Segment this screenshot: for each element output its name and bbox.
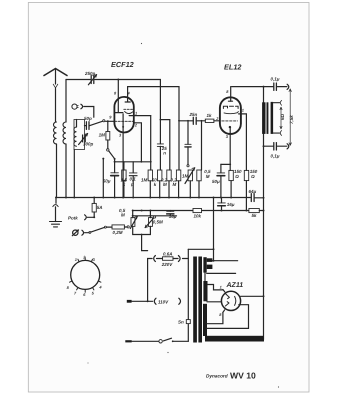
svg-text:0,1μ: 0,1μ	[271, 77, 280, 82]
svg-text:5k: 5k	[252, 213, 258, 218]
svg-text:M: M	[206, 174, 210, 179]
svg-text:M: M	[173, 182, 177, 187]
svg-text:Ω: Ω	[250, 174, 255, 179]
svg-text:μ: μ	[130, 182, 134, 187]
svg-text:50p: 50p	[84, 116, 92, 121]
svg-text:0,2M: 0,2M	[113, 230, 123, 235]
svg-text:25n: 25n	[189, 112, 198, 117]
svg-text:AZ11: AZ11	[226, 282, 244, 289]
svg-text:7,5k: 7,5k	[289, 115, 294, 124]
svg-text:1M: 1M	[182, 174, 189, 179]
svg-text:250p: 250p	[84, 71, 96, 76]
svg-text:Sn: Sn	[178, 319, 184, 324]
svg-text:0,5M: 0,5M	[153, 220, 163, 225]
svg-text:1: 1	[135, 111, 137, 116]
svg-text:6Ω: 6Ω	[280, 113, 285, 120]
svg-text:1k: 1k	[207, 113, 213, 118]
svg-text:M: M	[121, 213, 125, 218]
svg-text:300p: 300p	[83, 142, 94, 147]
svg-text:110V: 110V	[158, 300, 169, 305]
svg-text:1M: 1M	[99, 132, 106, 137]
svg-text:ECF12: ECF12	[111, 60, 134, 69]
svg-text:Potk: Potk	[68, 216, 78, 221]
svg-text:EL12: EL12	[224, 63, 241, 72]
svg-text:1: 1	[220, 285, 222, 290]
svg-text:50μ: 50μ	[103, 178, 111, 183]
svg-text:50μ: 50μ	[212, 179, 220, 184]
svg-text:5A: 5A	[97, 205, 103, 210]
svg-text:WV 10: WV 10	[230, 371, 256, 381]
svg-text:1M: 1M	[141, 177, 148, 182]
svg-text:1: 1	[242, 108, 244, 113]
svg-text:Ω: Ω	[234, 174, 239, 179]
svg-text:1: 1	[75, 257, 77, 262]
svg-text:16μ: 16μ	[169, 214, 177, 219]
svg-text:16μ: 16μ	[227, 202, 235, 207]
svg-text:10k: 10k	[194, 214, 202, 219]
svg-text:220V: 220V	[161, 262, 174, 267]
svg-text:n: n	[163, 150, 166, 155]
svg-text:64μ: 64μ	[249, 189, 257, 194]
svg-text:M: M	[163, 182, 167, 187]
svg-text:0,1μ: 0,1μ	[271, 154, 280, 159]
svg-text:0,6A: 0,6A	[163, 252, 173, 257]
svg-text:Dynacord: Dynacord	[206, 374, 228, 379]
